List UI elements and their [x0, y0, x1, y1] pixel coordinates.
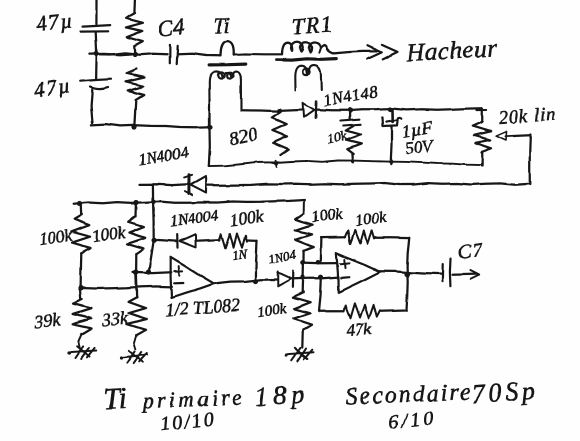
wire U1B feedback right vertical — [407, 238, 410, 311]
op-amp U1B plus sign — [340, 260, 349, 268]
wire node A to resistor branch — [89, 54, 136, 55]
wire U1B top feedback upper — [321, 236, 346, 239]
value label 1N — [231, 246, 249, 263]
wire D2 to vertical drop — [140, 183, 188, 186]
svg-text:Ti: Ti — [213, 13, 230, 38]
wire Ti to TR1 — [234, 53, 282, 56]
wire mid bottom rail — [209, 161, 483, 167]
wire node C to diode D1 — [280, 110, 303, 111]
value label 100k (U1B feedback) — [354, 209, 388, 230]
label C4 — [157, 14, 186, 41]
svg-text:39k: 39k — [32, 309, 62, 332]
svg-text:33k: 33k — [100, 307, 130, 330]
transformer TR1 secondary coil — [295, 65, 321, 90]
node A junction dot — [94, 51, 99, 56]
wire R_in2 down to bottom-left rail — [134, 100, 136, 127]
wire tap to diode D3 — [154, 240, 176, 241]
wire C4 to Ti — [179, 54, 221, 56]
wire D4 to U1B minus input — [294, 277, 337, 279]
op-amp U1A minus sign — [174, 282, 183, 284]
value label 100k (chain bottom) — [256, 301, 287, 321]
value label 33k — [100, 307, 130, 330]
value label 100k (divider1) — [38, 225, 74, 248]
wire feedback to output — [247, 241, 257, 281]
resistor R_in1 (top left) — [126, 13, 143, 46]
wire C7 output with arrow — [453, 271, 480, 280]
inductor Ti secondary coil — [209, 71, 241, 110]
svg-text:70Sp: 70Sp — [470, 375, 540, 409]
svg-text:Ti: Ti — [103, 382, 128, 416]
value label 1N4004 (D3) — [170, 208, 220, 230]
arrow chevrons to Hacheur — [367, 45, 398, 60]
label TR1 — [291, 12, 334, 39]
svg-text:Hacheur: Hacheur — [405, 35, 498, 67]
wire C_in1 to node A — [96, 32, 97, 54]
value label 820 — [228, 124, 260, 149]
ground G1 — [67, 346, 96, 359]
node junction dot at 1uF branch — [387, 107, 392, 112]
resistor R 33k — [127, 273, 147, 350]
wire chain crossing — [302, 263, 305, 292]
wire D3 to R100k scribble — [196, 240, 220, 241]
node C junction dot — [277, 108, 282, 113]
wire U1B output — [380, 271, 442, 274]
wire 10k to bottom rail — [351, 154, 354, 162]
node junction dot at 10k branch — [348, 107, 353, 112]
op-amp U1B minus sign — [341, 276, 350, 279]
wire node A down to C_in2 — [95, 54, 98, 79]
wire 47k to right vertical — [380, 309, 406, 312]
node junction dot Ti/rail — [207, 124, 212, 129]
wire top vertical into R_in1 — [133, 0, 136, 13]
value label 50V — [404, 136, 436, 158]
resistor R 100k (U1B feedback) — [345, 230, 374, 244]
node junction dot drop/rail2 — [151, 200, 155, 204]
svg-text:18p: 18p — [253, 378, 310, 412]
label Ti — [213, 13, 230, 38]
node B junction dot — [132, 51, 137, 56]
ground G3 — [284, 348, 313, 361]
caption Ti — [103, 382, 128, 416]
wire Ti right leg to node C — [241, 110, 280, 111]
resistor R 100k (divider 2 top) — [127, 203, 145, 272]
node junction dot plus-net left — [133, 270, 138, 275]
value label 1N4148 — [321, 82, 379, 110]
caption Secondaire — [345, 380, 473, 410]
op-amp U1A triangle — [171, 257, 215, 298]
node junction dot rail/R100k-2 — [133, 200, 138, 205]
wire U1A output — [214, 280, 276, 284]
node junction dot plus-net U1B — [301, 260, 306, 265]
wire long horizontal (wiper net) — [207, 183, 529, 185]
node junction dot rail/R100k-1 — [77, 201, 82, 206]
resistor R 39k — [73, 288, 93, 348]
wire chain to ground — [301, 330, 304, 348]
capacitor above 10k plates — [341, 110, 361, 125]
wire U1B bottom feedback left leg — [319, 277, 321, 311]
node junction dot U1A output — [253, 278, 258, 283]
svg-text:TR1: TR1 — [291, 12, 334, 39]
value label 1N04 (D4) — [267, 246, 298, 267]
wire rail end down to chain — [303, 200, 305, 213]
junction tick 820/bottom rail — [275, 161, 279, 167]
wire Ti secondary left leg to rail — [208, 100, 210, 126]
diode D4 (points right) — [277, 271, 293, 287]
value label 100k (U1A feedback) — [229, 206, 265, 229]
value label 1N4004 (D2) — [137, 144, 190, 169]
capacitor C 1uF 50V (electrolytic) — [382, 110, 401, 163]
caption 6/10 — [387, 407, 437, 434]
capacitor C_in1 47u plates — [81, 25, 110, 32]
ground G2 — [119, 351, 147, 364]
value label 100k (chain top) — [310, 205, 344, 226]
wire R_in1 to node B — [133, 46, 136, 54]
op-amp U1B triangle — [336, 253, 380, 292]
caption 70Sp — [470, 375, 540, 409]
label C7 — [457, 239, 485, 264]
capacitor C_in2 47u plates (polarized) — [81, 79, 111, 89]
wire TR1 to arrow — [334, 51, 376, 53]
resistor R 100k (U1A feedback) — [219, 234, 247, 249]
value label 47u (C_in2) — [32, 73, 73, 102]
diode D1 1N4148 — [303, 101, 316, 118]
capacitor C4 plates — [170, 45, 177, 64]
potentiometer wiper arrow — [496, 132, 530, 141]
caption primaire — [140, 384, 245, 413]
svg-text:20k lin: 20k lin — [498, 104, 557, 129]
wire node A to C4 — [97, 53, 168, 55]
value label 10k — [326, 129, 350, 148]
svg-text:primaire: primaire — [140, 384, 245, 413]
wire U1B top feedback left leg — [319, 238, 322, 263]
potentiometer P1 20k body — [473, 109, 492, 167]
wire vertical drop to U1A input net — [149, 184, 154, 272]
wire D1 to 20k pot (main mid rail) — [317, 108, 481, 110]
svg-text:47µ: 47µ — [35, 8, 75, 36]
svg-text:47k: 47k — [346, 319, 372, 340]
diode D3 1N4004 (points left) — [177, 234, 195, 248]
wire U1B top feedback right — [374, 237, 409, 240]
wire opamp U1A plus input — [133, 271, 171, 274]
terminal circle at 820 bottom — [277, 156, 283, 162]
node junction dot plus-net right — [146, 269, 151, 274]
junction tick 1uF/bottom rail — [389, 159, 393, 164]
part label 1/2 TL082 — [165, 295, 241, 320]
diode D2 1N4004 (points left) — [184, 175, 206, 196]
wire opamp U1A minus input — [81, 286, 172, 288]
wire chain mid — [302, 251, 304, 264]
svg-text:C7: C7 — [457, 239, 485, 264]
resistor R 47k (U1B feedback 2) — [344, 303, 380, 318]
node junction dot minus/feedback — [318, 275, 323, 280]
wire pot wiper down to long rail — [529, 135, 532, 185]
resistor R 100k (divider 1 top) — [72, 204, 90, 289]
resistor R 820 — [272, 112, 289, 155]
net label Hacheur — [405, 35, 498, 67]
inductor Ti primary coil — [221, 41, 235, 56]
value label 100k (divider2) — [91, 222, 127, 245]
TR1 core bar — [277, 59, 337, 61]
node junction dot minus/chain — [301, 275, 305, 279]
wire U1B plus input — [303, 261, 338, 264]
wire C_in2 down — [91, 89, 92, 123]
caption 18p — [253, 378, 310, 412]
wire bottom-left rail — [91, 124, 210, 127]
resistor R_in2 (below R_in1) — [126, 69, 145, 100]
Ti core bar — [210, 62, 246, 66]
caption 10/10 — [159, 408, 217, 436]
node junction dot R_in2/rail — [131, 124, 136, 129]
transformer TR1 primary coil — [282, 42, 334, 54]
svg-text:Secondaire: Secondaire — [345, 380, 473, 410]
capacitor C7 plates — [442, 258, 450, 286]
node junction dot U1B output — [404, 271, 409, 276]
value label 39k — [32, 309, 62, 332]
value label 47u (C_in1) — [35, 8, 75, 36]
node junction dot U1B plus/feedback — [315, 260, 320, 265]
node junction dot feedback tap — [151, 237, 157, 243]
wire node Ti-rail down to mid bottom rail — [209, 128, 210, 166]
value label 20k lin — [498, 104, 557, 129]
wire lower top rail — [74, 200, 305, 204]
svg-text:C4: C4 — [157, 14, 186, 41]
resistor R 100k (chain bottom) — [293, 292, 312, 330]
wire top-left vertical into C_in1 — [95, 0, 97, 24]
node junction dot minus-net — [78, 285, 83, 290]
svg-text:50V: 50V — [404, 136, 436, 158]
resistor R 10k — [346, 126, 361, 154]
op-amp U1A plus sign — [174, 266, 182, 275]
value label 1uF — [400, 117, 434, 142]
resistor R 100k (chain top) — [295, 214, 313, 251]
junction tick 10k/bottom rail — [351, 158, 355, 163]
wire U1B bottom feedback lower — [319, 310, 344, 312]
value label 47k — [346, 319, 372, 340]
